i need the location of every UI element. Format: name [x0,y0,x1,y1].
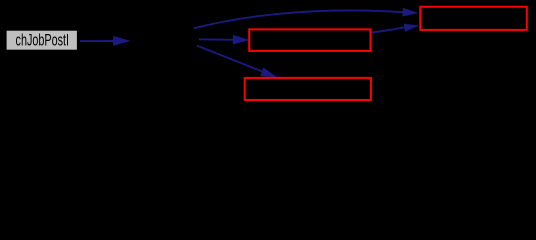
arrowhead root -> hidden node [113,36,131,46]
edge hidden node -> middle box [199,38,234,41]
middle red box [249,29,370,51]
arrowhead hidden node -> bottom box [260,67,277,77]
edge hidden node -> bottom box [197,46,263,72]
top-right red box [420,7,527,30]
node chJobPostI (root, grey) [6,30,78,50]
edge middle box -> top-right box [371,27,406,32]
bottom red box [245,78,371,100]
arrowhead hidden node -> top-right box [402,8,418,17]
svg-text:chJobPostI: chJobPostI [16,32,70,50]
edge hidden node -> top-right box (long curve) [194,10,404,28]
edge root -> hidden node [80,40,114,42]
arrowhead hidden node -> middle box [233,35,250,45]
arrowhead middle box -> top-right box [404,24,419,32]
